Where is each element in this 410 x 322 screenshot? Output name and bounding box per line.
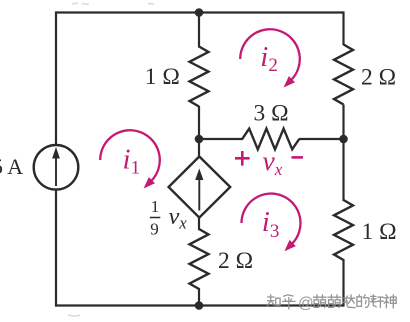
wire top: [56, 11, 344, 13]
resistor R 1ohm top: [190, 47, 209, 107]
wire middle stub below 1ohm: [198, 106, 200, 140]
mesh current i2 arrow: [240, 29, 300, 87]
svg-text:1 Ω: 1 Ω: [145, 64, 180, 90]
mesh current i1 arrow: [100, 130, 160, 188]
watermark zhihu: [268, 295, 397, 309]
svg-text:1: 1: [151, 197, 160, 216]
svg-text:1 Ω: 1 Ω: [362, 219, 397, 245]
svg-text:2 Ω: 2 Ω: [361, 64, 396, 90]
wire bottom: [56, 304, 344, 306]
node mid-right junction: [339, 135, 348, 144]
faint mark bottom-left: [68, 315, 80, 316]
resistor R 2ohm bottom: [190, 229, 209, 289]
resistor R 2ohm right: [334, 45, 353, 105]
wire left lower: [55, 189, 57, 306]
node mid-left junction: [195, 135, 204, 144]
wire top-middle stub: [198, 13, 200, 48]
wire right upper stub: [342, 11, 344, 45]
wire left upper: [55, 11, 57, 146]
label plus vx minus: [235, 145, 303, 179]
current source 5A: [34, 145, 79, 190]
node bottom junction: [195, 301, 204, 310]
wire 3ohm to right node: [299, 138, 344, 140]
node top junction: [195, 8, 204, 17]
dependent source diamond 1/9 vx: [169, 157, 231, 218]
wire node to diamond: [198, 139, 200, 158]
svg-text:3 Ω: 3 Ω: [254, 100, 289, 126]
mesh current i3 arrow: [242, 194, 301, 252]
svg-text:2 Ω: 2 Ω: [218, 248, 253, 274]
resistor R 3ohm: [242, 129, 299, 150]
svg-text:5 A: 5 A: [0, 154, 23, 179]
svg-text:@: @: [298, 295, 314, 312]
faint marks top: [72, 3, 154, 5]
wire diamond to 2ohm: [198, 217, 200, 230]
wire right bottom stub: [342, 259, 344, 307]
wire 2ohm to bottom: [198, 288, 200, 306]
svg-text:9: 9: [150, 219, 159, 238]
wire right mid stub: [342, 105, 344, 141]
wire mid-left to 3ohm: [199, 138, 243, 140]
wire right lower-mid: [342, 139, 344, 201]
label 1/9 vx: [150, 197, 188, 238]
resistor R 1ohm bottom right: [334, 200, 353, 260]
